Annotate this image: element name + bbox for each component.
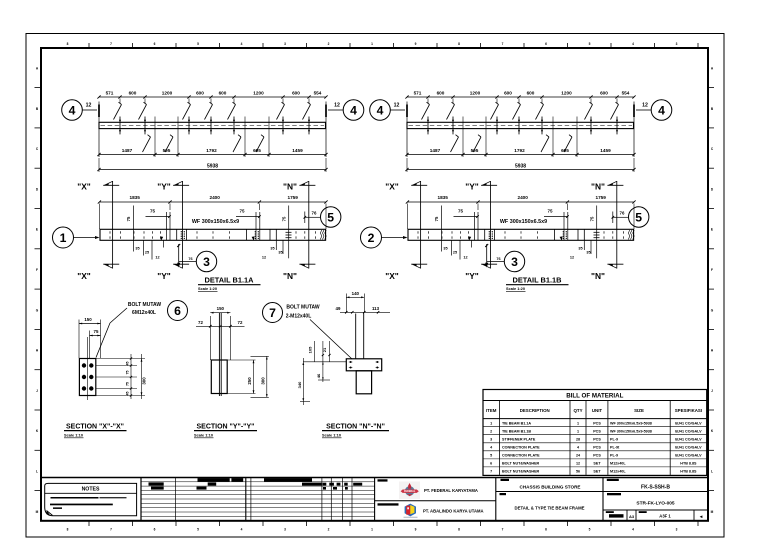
svg-text:PT. ABALINDO KARYA UTAMA: PT. ABALINDO KARYA UTAMA bbox=[423, 509, 484, 514]
svg-text:2: 2 bbox=[368, 231, 375, 245]
svg-text:2400: 2400 bbox=[517, 195, 528, 200]
svg-text:35: 35 bbox=[586, 251, 590, 255]
svg-text:BOLT MUTAW: BOLT MUTAW bbox=[128, 302, 161, 308]
svg-text:"X": "X" bbox=[385, 182, 399, 192]
svg-text:76: 76 bbox=[188, 257, 192, 261]
section Y-Y dim 250 bbox=[253, 360, 255, 394]
svg-text:PCS: PCS bbox=[593, 454, 601, 458]
svg-text:25: 25 bbox=[145, 251, 149, 255]
overall dimension 5938 (B1.1A) bbox=[99, 169, 326, 171]
svg-text:FK-S-SSH-B: FK-S-SSH-B bbox=[641, 485, 670, 491]
svg-text:6: 6 bbox=[545, 42, 547, 46]
revision table header blobs bbox=[198, 478, 230, 481]
svg-text:L: L bbox=[711, 470, 713, 474]
svg-text:WF 300x150x6.5x9: WF 300x150x6.5x9 bbox=[192, 219, 239, 225]
svg-text:4: 4 bbox=[350, 104, 357, 118]
svg-text:7: 7 bbox=[110, 42, 112, 46]
svg-text:35: 35 bbox=[578, 247, 582, 251]
svg-text:2-M12x40L: 2-M12x40L bbox=[286, 314, 312, 320]
end extension right (B1.1B) bbox=[633, 102, 635, 158]
svg-text:SIZE: SIZE bbox=[634, 408, 644, 413]
svg-text:2400: 2400 bbox=[209, 195, 220, 200]
leader to section X-X plate bbox=[110, 308, 127, 323]
svg-text:250: 250 bbox=[247, 377, 252, 385]
svg-text:571: 571 bbox=[106, 90, 114, 95]
svg-text:◄: ◄ bbox=[699, 514, 704, 519]
top dimension line (B1.1A) bbox=[99, 96, 326, 98]
svg-text:75: 75 bbox=[126, 216, 131, 221]
svg-text:600: 600 bbox=[219, 90, 227, 95]
svg-text:75: 75 bbox=[126, 371, 130, 375]
svg-text:6: 6 bbox=[154, 42, 156, 46]
beam bar (B1.1A) bbox=[99, 122, 326, 128]
svg-text:STIFFENER PLATE: STIFFENER PLATE bbox=[502, 438, 536, 442]
svg-text:1: 1 bbox=[371, 528, 373, 532]
drawing number cell bbox=[607, 479, 619, 481]
below-bar stiffener callouts (B1.1B) bbox=[441, 240, 443, 251]
end extension left (B1.1B) bbox=[406, 102, 408, 158]
beam bar detail (B1.1B) bbox=[408, 229, 634, 240]
svg-text:45: 45 bbox=[126, 362, 130, 366]
svg-text:5: 5 bbox=[635, 211, 642, 225]
svg-text:4: 4 bbox=[377, 104, 384, 118]
svg-text:75: 75 bbox=[282, 216, 287, 221]
svg-text:"Y": "Y" bbox=[157, 271, 171, 281]
svg-text:1459: 1459 bbox=[292, 148, 303, 153]
svg-text:600: 600 bbox=[437, 90, 445, 95]
svg-text:4: 4 bbox=[632, 42, 634, 46]
svg-text:12: 12 bbox=[570, 256, 574, 260]
revision table grid bbox=[174, 478, 176, 521]
svg-text:FEDERAL: FEDERAL bbox=[404, 490, 416, 493]
bolt clusters (B1.1B) bbox=[489, 231, 490, 232]
svg-text:35: 35 bbox=[278, 251, 282, 255]
svg-text:DETAIL B1.1B: DETAIL B1.1B bbox=[512, 275, 561, 284]
svg-text:7: 7 bbox=[502, 42, 504, 46]
section X-X plate with bolts bbox=[79, 359, 95, 396]
svg-text:8: 8 bbox=[458, 528, 460, 532]
svg-text:NOTES: NOTES bbox=[82, 487, 100, 493]
svg-text:4: 4 bbox=[632, 528, 634, 532]
svg-text:5938: 5938 bbox=[207, 163, 218, 169]
svg-text:1: 1 bbox=[60, 231, 67, 245]
margin ruler top bbox=[88, 43, 90, 48]
callout bubble 3 (B1.1A) bbox=[178, 244, 180, 266]
svg-text:75: 75 bbox=[239, 209, 245, 214]
svg-text:340: 340 bbox=[297, 381, 302, 388]
svg-text:BILL OF MATERIAL: BILL OF MATERIAL bbox=[566, 393, 623, 400]
svg-text:F: F bbox=[36, 268, 38, 272]
svg-text:PL-9: PL-9 bbox=[610, 454, 618, 458]
svg-text:6: 6 bbox=[154, 528, 156, 532]
svg-text:3: 3 bbox=[284, 42, 286, 46]
svg-text:76: 76 bbox=[620, 210, 625, 215]
project name cell bbox=[501, 479, 510, 481]
svg-text:PL-9t: PL-9t bbox=[610, 446, 620, 450]
svg-text:600: 600 bbox=[527, 90, 535, 95]
svg-text:1759: 1759 bbox=[595, 195, 606, 200]
logo PT Federal Karyatama bbox=[399, 482, 420, 500]
svg-text:1: 1 bbox=[371, 42, 373, 46]
svg-text:"N": "N" bbox=[591, 271, 605, 281]
lower dimension line (B1.1B) bbox=[462, 117, 464, 158]
beam bar detail (B1.1A) bbox=[100, 229, 326, 240]
svg-text:"Y": "Y" bbox=[465, 271, 479, 281]
svg-text:CHASSIS BUILDING STORE: CHASSIS BUILDING STORE bbox=[520, 484, 581, 489]
svg-text:Scale 1:10: Scale 1:10 bbox=[64, 433, 83, 438]
svg-text:56: 56 bbox=[576, 470, 580, 474]
svg-text:HTB 8.8S: HTB 8.8S bbox=[680, 470, 697, 474]
svg-text:150: 150 bbox=[217, 306, 225, 311]
svg-text:1200: 1200 bbox=[253, 90, 264, 95]
svg-text:"N": "N" bbox=[591, 182, 605, 192]
svg-text:M12x40L: M12x40L bbox=[610, 462, 626, 466]
svg-text:A3: A3 bbox=[629, 514, 635, 519]
beam bar (B1.1B) bbox=[407, 122, 634, 128]
svg-text:9: 9 bbox=[415, 528, 417, 532]
scale/sheet row bbox=[603, 509, 708, 511]
weld ticks on bar (B1.1A) bbox=[119, 117, 121, 135]
dim 76 and grid bubble 5 (B1.1B) bbox=[612, 212, 614, 224]
section X-X dim 150 bbox=[78, 320, 80, 359]
svg-text:7: 7 bbox=[110, 528, 112, 532]
svg-text:F: F bbox=[711, 268, 713, 272]
section N-N left dims bbox=[303, 361, 346, 363]
svg-text:6M12x40L: 6M12x40L bbox=[132, 310, 156, 316]
svg-text:PCS: PCS bbox=[593, 438, 601, 442]
svg-text:BJ41 CO/GALV: BJ41 CO/GALV bbox=[675, 421, 702, 425]
section line Y-Y (B1.1B) bbox=[490, 181, 492, 269]
svg-text:1759: 1759 bbox=[287, 195, 298, 200]
svg-text:"X": "X" bbox=[385, 271, 399, 281]
svg-text:HTB 8.8S: HTB 8.8S bbox=[680, 462, 697, 466]
svg-text:49: 49 bbox=[336, 306, 341, 311]
svg-text:3: 3 bbox=[676, 528, 678, 532]
dimension line 1835/2400/1759 (B1.1B) bbox=[407, 201, 634, 203]
svg-text:M: M bbox=[711, 510, 714, 514]
section X-X dim 75 bbox=[90, 335, 101, 337]
svg-text:6: 6 bbox=[545, 528, 547, 532]
svg-text:PCS: PCS bbox=[593, 446, 601, 450]
svg-text:554: 554 bbox=[314, 90, 322, 95]
svg-text:12: 12 bbox=[155, 256, 159, 260]
svg-text:3: 3 bbox=[490, 438, 492, 442]
svg-text:35: 35 bbox=[135, 247, 139, 251]
svg-text:L: L bbox=[36, 470, 38, 474]
svg-text:M: M bbox=[36, 510, 39, 514]
svg-text:1459: 1459 bbox=[600, 148, 611, 153]
svg-text:PL-9: PL-9 bbox=[610, 438, 618, 442]
svg-text:ITEM: ITEM bbox=[486, 408, 497, 413]
svg-text:5: 5 bbox=[197, 42, 199, 46]
svg-text:3: 3 bbox=[203, 255, 210, 269]
section X-X centerline bbox=[87, 337, 89, 400]
svg-text:A3F 1: A3F 1 bbox=[659, 514, 671, 519]
svg-text:BJ41 CO/GALV: BJ41 CO/GALV bbox=[675, 430, 702, 434]
svg-text:1487: 1487 bbox=[430, 148, 441, 153]
svg-text:5: 5 bbox=[490, 454, 492, 458]
section N-N dim 49/113 bbox=[340, 311, 390, 313]
svg-text:28: 28 bbox=[576, 438, 580, 442]
svg-text:72: 72 bbox=[238, 320, 243, 325]
grid bubble 4 right (B1.1A) bbox=[343, 100, 364, 121]
plate marks below bar (B1.1B) bbox=[451, 137, 459, 152]
svg-text:12: 12 bbox=[576, 462, 580, 466]
svg-text:76: 76 bbox=[312, 210, 317, 215]
end extension right (B1.1A) bbox=[325, 102, 327, 158]
svg-text:"X": "X" bbox=[77, 271, 91, 281]
section N-N web lines bbox=[355, 314, 357, 359]
section Y-Y extension lines bbox=[227, 359, 255, 361]
svg-text:600: 600 bbox=[600, 90, 608, 95]
svg-text:SECTION "Y"-"Y": SECTION "Y"-"Y" bbox=[196, 423, 254, 430]
svg-text:7: 7 bbox=[490, 470, 492, 474]
svg-text:UNIT: UNIT bbox=[592, 408, 603, 413]
svg-text:"X": "X" bbox=[77, 182, 91, 192]
margin ruler left bbox=[35, 87, 42, 89]
svg-text:12: 12 bbox=[394, 103, 400, 109]
svg-text:571: 571 bbox=[414, 90, 422, 95]
svg-text:1835: 1835 bbox=[129, 195, 140, 200]
svg-text:5938: 5938 bbox=[515, 163, 526, 169]
svg-text:600: 600 bbox=[196, 90, 204, 95]
section line X-X (B1.1A) bbox=[112, 181, 114, 269]
svg-text:300: 300 bbox=[142, 377, 147, 385]
svg-text:3: 3 bbox=[284, 528, 286, 532]
svg-text:5: 5 bbox=[589, 528, 591, 532]
svg-text:Scale 1:10: Scale 1:10 bbox=[194, 433, 213, 438]
svg-text:600: 600 bbox=[129, 90, 137, 95]
svg-text:DESCRIPTION: DESCRIPTION bbox=[520, 408, 550, 413]
dimension line 1835/2400/1759 (B1.1A) bbox=[99, 201, 326, 203]
svg-text:Scale 1:10: Scale 1:10 bbox=[322, 433, 341, 438]
svg-text:113: 113 bbox=[372, 306, 380, 311]
svg-text:BOLT MUTAW: BOLT MUTAW bbox=[286, 304, 319, 310]
svg-text:PCS: PCS bbox=[593, 421, 601, 425]
svg-text:12: 12 bbox=[334, 103, 340, 109]
svg-text:1200: 1200 bbox=[561, 90, 572, 95]
grid bubble 4 left (B1.1A) bbox=[62, 100, 83, 121]
svg-text:5: 5 bbox=[589, 42, 591, 46]
svg-text:2: 2 bbox=[490, 430, 492, 434]
svg-text:BOLT NUT&WASHER: BOLT NUT&WASHER bbox=[502, 462, 540, 466]
svg-text:QTY: QTY bbox=[573, 408, 582, 413]
bill of material table bbox=[483, 390, 707, 476]
top dimension line (B1.1B) bbox=[407, 96, 634, 98]
below-bar stiffener callouts (B1.1A) bbox=[133, 240, 135, 251]
svg-text:Scale 1:20: Scale 1:20 bbox=[506, 286, 525, 291]
svg-text:1792: 1792 bbox=[514, 148, 525, 153]
svg-text:TIE BEAM B1.1A: TIE BEAM B1.1A bbox=[502, 421, 531, 425]
svg-text:8: 8 bbox=[458, 42, 460, 46]
margin ruler bottom bbox=[88, 521, 90, 526]
svg-text:4: 4 bbox=[658, 104, 665, 118]
svg-text:2: 2 bbox=[328, 42, 330, 46]
section Y-Y dim 300 bbox=[266, 356, 268, 397]
svg-text:5: 5 bbox=[327, 211, 334, 225]
svg-text:6: 6 bbox=[490, 462, 492, 466]
svg-text:SET: SET bbox=[593, 462, 601, 466]
svg-text:SET: SET bbox=[593, 470, 601, 474]
section Y-Y dim 150 bbox=[209, 316, 211, 360]
svg-text:150: 150 bbox=[84, 317, 92, 322]
dim 76 and grid bubble 5 (B1.1A) bbox=[304, 212, 306, 224]
section N-N top plate with bolts bbox=[346, 359, 381, 371]
grid bubble 2 (B1.1B) bbox=[361, 227, 382, 248]
svg-text:75: 75 bbox=[126, 382, 130, 386]
notes box fold mark bbox=[47, 511, 53, 516]
section Y-Y web lines bbox=[218, 313, 220, 396]
svg-text:DETAIL & TYPE TIE BEAM FRAME: DETAIL & TYPE TIE BEAM FRAME bbox=[514, 506, 584, 511]
svg-text:600: 600 bbox=[292, 90, 300, 95]
svg-text:BJ41 CO/GALV: BJ41 CO/GALV bbox=[675, 454, 702, 458]
bolt clusters (B1.1A) bbox=[181, 231, 182, 232]
svg-text:TIE BEAM B1.1B: TIE BEAM B1.1B bbox=[502, 430, 531, 434]
section Y-Y flange plate bbox=[211, 360, 227, 394]
svg-text:1200: 1200 bbox=[470, 90, 481, 95]
svg-text:35: 35 bbox=[443, 247, 447, 251]
svg-text:CONNECTION PLATE: CONNECTION PLATE bbox=[502, 446, 540, 450]
stiffener marks above bar (B1.1A) bbox=[119, 99, 121, 104]
section line X-X (B1.1B) bbox=[420, 181, 422, 269]
svg-text:M12x40L: M12x40L bbox=[610, 470, 626, 474]
svg-text:"Y": "Y" bbox=[157, 182, 171, 192]
svg-text:SECTION "X"-"X": SECTION "X"-"X" bbox=[66, 423, 124, 430]
logo cell divider bbox=[375, 500, 496, 502]
callout bubble 3 (B1.1B) bbox=[486, 244, 488, 266]
sheet inner border bbox=[41, 48, 708, 521]
svg-text:PCS: PCS bbox=[593, 430, 601, 434]
svg-text:554: 554 bbox=[622, 90, 630, 95]
stiffener marks above bar (B1.1B) bbox=[427, 99, 429, 104]
svg-text:75: 75 bbox=[590, 216, 595, 221]
svg-text:STR-FK-LYO-005: STR-FK-LYO-005 bbox=[636, 501, 675, 507]
svg-text:45: 45 bbox=[126, 392, 130, 396]
svg-text:75: 75 bbox=[458, 209, 464, 214]
svg-text:4: 4 bbox=[69, 104, 76, 118]
logo PT Abilindo Karya Utama bbox=[404, 504, 418, 518]
svg-text:4: 4 bbox=[241, 42, 243, 46]
svg-text:1: 1 bbox=[577, 421, 579, 425]
section X-X bolt row lines bbox=[96, 365, 137, 367]
weld ticks on bar (B1.1B) bbox=[427, 117, 429, 135]
svg-text:1200: 1200 bbox=[162, 90, 173, 95]
margin ruler right bbox=[708, 87, 714, 89]
svg-text:BOLT NUT&WASHER: BOLT NUT&WASHER bbox=[502, 470, 540, 474]
svg-text:"N": "N" bbox=[283, 271, 297, 281]
svg-text:7: 7 bbox=[502, 528, 504, 532]
svg-text:12: 12 bbox=[86, 103, 92, 109]
svg-text:75: 75 bbox=[94, 329, 99, 334]
svg-text:PT. FEDERAL KARYATAMA: PT. FEDERAL KARYATAMA bbox=[424, 488, 478, 493]
section X-X dim 300 bbox=[141, 354, 143, 399]
bolt callout bubble 7 bbox=[263, 303, 283, 323]
lower dimension line (B1.1A) bbox=[154, 117, 156, 158]
bolt ticks in bar (B1.1A) bbox=[109, 231, 111, 233]
svg-text:1792: 1792 bbox=[206, 148, 217, 153]
svg-text:E: E bbox=[36, 228, 38, 232]
section line N-N (B1.1A) bbox=[308, 181, 310, 269]
svg-text:75: 75 bbox=[547, 209, 553, 214]
svg-text:2: 2 bbox=[328, 528, 330, 532]
svg-text:9: 9 bbox=[415, 42, 417, 46]
grid bubble 1 (B1.1A) bbox=[53, 227, 74, 248]
svg-text:8: 8 bbox=[67, 528, 69, 532]
section line N-N (B1.1B) bbox=[616, 181, 618, 269]
svg-text:7: 7 bbox=[269, 306, 276, 320]
svg-text:DETAIL B1.1A: DETAIL B1.1A bbox=[204, 275, 254, 284]
svg-text:J: J bbox=[36, 389, 38, 393]
svg-text:5: 5 bbox=[197, 528, 199, 532]
svg-text:75: 75 bbox=[434, 216, 439, 221]
section X-X spacing dims 45/75/75/45 bbox=[130, 354, 132, 399]
svg-text:1: 1 bbox=[577, 430, 579, 434]
svg-text:J: J bbox=[711, 389, 713, 393]
svg-text:"N": "N" bbox=[283, 182, 297, 192]
svg-text:Scale 1:20: Scale 1:20 bbox=[198, 286, 217, 291]
svg-text:35: 35 bbox=[270, 247, 274, 251]
svg-text:SECTION "N"-"N": SECTION "N"-"N" bbox=[326, 423, 385, 430]
title block frame bbox=[41, 477, 708, 479]
svg-text:1835: 1835 bbox=[437, 195, 448, 200]
svg-text:WF 300x150x6.5x9-5938: WF 300x150x6.5x9-5938 bbox=[610, 421, 652, 425]
drawing title cell bbox=[500, 493, 507, 495]
svg-text:3: 3 bbox=[511, 255, 518, 269]
svg-text:SPESIFIKASI: SPESIFIKASI bbox=[675, 408, 702, 413]
svg-text:12: 12 bbox=[463, 256, 467, 260]
svg-text:6: 6 bbox=[174, 304, 181, 318]
svg-text:12: 12 bbox=[642, 103, 648, 109]
svg-text:76: 76 bbox=[496, 257, 500, 261]
svg-text:12: 12 bbox=[262, 256, 266, 260]
svg-text:140: 140 bbox=[352, 291, 360, 296]
svg-text:WF 300x150x6.5x9-5938: WF 300x150x6.5x9-5938 bbox=[610, 430, 652, 434]
svg-text:75: 75 bbox=[150, 209, 156, 214]
end extension left (B1.1A) bbox=[98, 102, 100, 158]
svg-text:CONNECTION PLATE: CONNECTION PLATE bbox=[502, 454, 540, 458]
svg-text:"Y": "Y" bbox=[465, 182, 479, 192]
leader to section N-N plate bbox=[310, 320, 352, 360]
plate marks below bar (B1.1A) bbox=[143, 137, 151, 152]
svg-text:72: 72 bbox=[198, 320, 203, 325]
svg-text:BJ41 CO/GALV: BJ41 CO/GALV bbox=[675, 446, 702, 450]
svg-text:8: 8 bbox=[67, 42, 69, 46]
section N-N beam stub bbox=[356, 371, 371, 394]
svg-text:46: 46 bbox=[316, 373, 321, 378]
section Y-Y dim 72/72 bbox=[196, 325, 245, 327]
bolt ticks in bar (B1.1B) bbox=[417, 231, 419, 233]
svg-text:1487: 1487 bbox=[122, 148, 133, 153]
svg-text:1: 1 bbox=[490, 421, 492, 425]
svg-text:E: E bbox=[711, 228, 713, 232]
notes box bbox=[45, 483, 137, 515]
grid bubble 4 left (B1.1B) bbox=[370, 100, 391, 121]
svg-text:4: 4 bbox=[241, 528, 243, 532]
overall dimension 5938 (B1.1B) bbox=[407, 169, 634, 171]
section N-N dim 140 bbox=[345, 294, 347, 313]
svg-text:WF 300x150x6.5x9: WF 300x150x6.5x9 bbox=[500, 219, 547, 225]
grid bubble 4 right (B1.1B) bbox=[651, 100, 672, 121]
svg-text:3: 3 bbox=[676, 42, 678, 46]
svg-text:BJ41 CO/GALV: BJ41 CO/GALV bbox=[675, 438, 702, 442]
svg-text:300: 300 bbox=[260, 377, 265, 385]
svg-text:25: 25 bbox=[453, 251, 457, 255]
svg-text:105: 105 bbox=[308, 346, 313, 353]
svg-text:600: 600 bbox=[504, 90, 512, 95]
section line Y-Y (B1.1A) bbox=[182, 181, 184, 269]
